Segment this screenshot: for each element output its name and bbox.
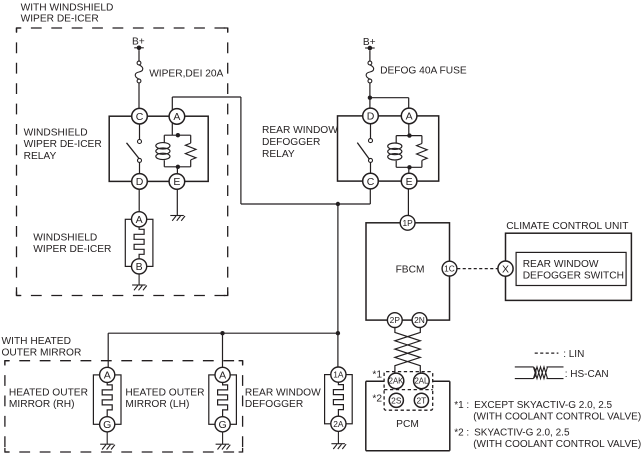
svg-text:HEATED OUTER: HEATED OUTER [125,388,204,399]
svg-text:RELAY: RELAY [24,151,57,162]
svg-text:HEATED OUTER: HEATED OUTER [9,388,88,399]
svg-text:C: C [367,176,375,188]
svg-text:2T: 2T [417,395,427,405]
svg-text:2A: 2A [333,419,344,429]
svg-text:DEFOGGER SWITCH: DEFOGGER SWITCH [523,270,624,281]
svg-text:1P: 1P [402,218,413,228]
svg-text:MIRROR (RH): MIRROR (RH) [9,399,75,410]
svg-text:A: A [173,111,180,123]
svg-text:B+: B+ [132,37,145,48]
svg-text:2S: 2S [391,395,402,405]
svg-text:WINDSHIELD: WINDSHIELD [33,233,97,244]
svg-text:2P: 2P [390,315,401,325]
svg-text:A: A [219,370,226,382]
svg-text:A: A [104,370,111,382]
svg-text:WIPER,DEI 20A: WIPER,DEI 20A [149,68,223,79]
svg-text:WINDSHIELD: WINDSHIELD [24,127,88,138]
svg-text:E: E [406,176,413,188]
svg-text:E: E [173,176,180,188]
svg-text:SKYACTIV-G 2.0, 2.5: SKYACTIV-G 2.0, 2.5 [474,428,570,439]
svg-text:*1: *1 [372,370,382,381]
svg-text:X: X [502,263,509,275]
svg-text:WITH HEATED: WITH HEATED [2,336,71,347]
svg-text:(WITH COOLANT CONTROL VALVE): (WITH COOLANT CONTROL VALVE) [473,439,641,450]
svg-text:*1 :: *1 : [454,400,469,411]
svg-text:WIPER DE-ICER: WIPER DE-ICER [21,14,99,25]
svg-text:2N: 2N [414,315,425,325]
svg-text:: HS-CAN: : HS-CAN [565,369,609,380]
svg-text:1C: 1C [444,264,455,274]
svg-text:RELAY: RELAY [262,149,295,160]
svg-text:B+: B+ [363,37,376,48]
svg-text:*2 :: *2 : [454,428,469,439]
svg-text:A: A [406,111,413,123]
svg-text:*2: *2 [372,393,382,404]
svg-text:FBCM: FBCM [396,265,425,276]
svg-text:D: D [367,111,375,123]
svg-text:D: D [136,176,144,188]
svg-text:2AK: 2AK [389,377,405,386]
svg-text:G: G [103,419,111,431]
svg-text:OUTER MIRROR: OUTER MIRROR [2,347,82,358]
svg-text:REAR WINDOW: REAR WINDOW [245,388,321,399]
svg-text:WIPER DE-ICER: WIPER DE-ICER [24,139,102,150]
svg-text:DEFOGGER: DEFOGGER [245,399,303,410]
svg-text:(WITH COOLANT CONTROL VALVE): (WITH COOLANT CONTROL VALVE) [473,411,641,422]
svg-text:DEFOG 40A FUSE: DEFOG 40A FUSE [380,65,467,76]
svg-text:G: G [219,419,227,431]
svg-text:CLIMATE CONTROL UNIT: CLIMATE CONTROL UNIT [506,221,628,232]
svg-text:DEFOGGER: DEFOGGER [262,137,320,148]
svg-text:REAR WINDOW: REAR WINDOW [523,259,599,270]
svg-text:PCM: PCM [396,419,419,430]
svg-text:WIPER DE-ICER: WIPER DE-ICER [33,244,111,255]
svg-text:MIRROR (LH): MIRROR (LH) [125,399,189,410]
svg-text:C: C [136,111,144,123]
svg-text:2AL: 2AL [414,377,429,386]
svg-text:A: A [136,214,143,226]
svg-text:B: B [136,261,143,273]
svg-text:EXCEPT SKYACTIV-G 2.0, 2.5: EXCEPT SKYACTIV-G 2.0, 2.5 [474,400,612,411]
svg-text:: LIN: : LIN [563,349,584,360]
svg-text:1A: 1A [333,370,344,380]
svg-text:WITH WINDSHIELD: WITH WINDSHIELD [21,2,114,13]
svg-text:REAR WINDOW: REAR WINDOW [262,125,338,136]
